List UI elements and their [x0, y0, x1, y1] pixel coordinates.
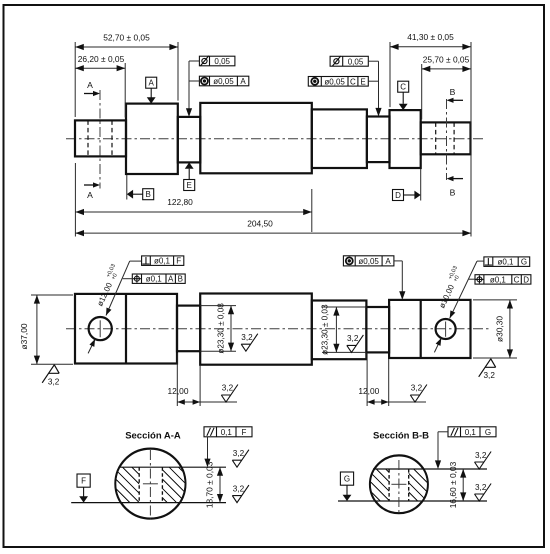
svg-text:D: D — [523, 275, 529, 284]
svg-text:ø0,05: ø0,05 — [358, 257, 379, 266]
svg-text:25,70 ± 0,05: 25,70 ± 0,05 — [423, 55, 470, 65]
svg-text:ø23,30 ± 0,03: ø23,30 ± 0,03 — [321, 304, 330, 355]
svg-text:0,05: 0,05 — [348, 57, 364, 66]
svg-text:F: F — [81, 477, 86, 486]
svg-text:ø0,1: ø0,1 — [490, 275, 507, 284]
svg-text:G: G — [485, 428, 491, 437]
svg-text:3,2: 3,2 — [347, 334, 359, 343]
svg-text:B: B — [178, 275, 183, 284]
svg-text:0,1: 0,1 — [221, 428, 233, 437]
svg-text:A: A — [385, 257, 391, 266]
svg-text:A: A — [87, 190, 93, 200]
svg-text:ø37,00: ø37,00 — [19, 323, 29, 349]
svg-text:E: E — [187, 181, 192, 190]
svg-text:C: C — [400, 83, 406, 92]
svg-text:Sección A-A: Sección A-A — [125, 431, 181, 442]
svg-text:12,00: 12,00 — [168, 386, 189, 396]
svg-text:3,2: 3,2 — [222, 384, 234, 393]
svg-text:G: G — [521, 258, 527, 267]
svg-text:Sección B-B: Sección B-B — [373, 431, 429, 442]
svg-text:A: A — [149, 79, 155, 88]
svg-text:3,2: 3,2 — [241, 333, 253, 342]
svg-text:0,05: 0,05 — [214, 57, 230, 66]
svg-text:C: C — [514, 275, 520, 284]
svg-text:A: A — [240, 77, 246, 86]
svg-text:3,2: 3,2 — [475, 483, 487, 492]
svg-text:ø0,1: ø0,1 — [154, 257, 171, 266]
svg-text:52,70 ± 0,05: 52,70 ± 0,05 — [103, 33, 150, 43]
svg-text:26,20 ± 0,05: 26,20 ± 0,05 — [78, 54, 125, 64]
svg-text:ø0,1: ø0,1 — [146, 275, 163, 284]
svg-text:ø0,05: ø0,05 — [213, 77, 234, 86]
svg-text:3,2: 3,2 — [233, 449, 245, 458]
svg-text:ø0,05: ø0,05 — [324, 77, 345, 86]
svg-text:12,00: 12,00 — [358, 386, 379, 396]
svg-text:122,80: 122,80 — [167, 197, 193, 207]
svg-text:E: E — [360, 77, 365, 86]
svg-text:ø0,1: ø0,1 — [497, 258, 514, 267]
svg-text:B: B — [450, 87, 456, 97]
svg-text:204,50: 204,50 — [247, 219, 273, 229]
svg-text:3,2: 3,2 — [48, 378, 60, 387]
svg-text:16,60 ± 0,03: 16,60 ± 0,03 — [448, 461, 458, 508]
svg-text:G: G — [344, 475, 350, 484]
svg-text:0,1: 0,1 — [465, 428, 477, 437]
svg-text:C: C — [350, 77, 356, 86]
svg-text:A: A — [168, 275, 174, 284]
svg-text:B: B — [450, 188, 456, 198]
svg-text:B: B — [146, 190, 151, 199]
svg-text:ø30,30: ø30,30 — [494, 316, 504, 342]
svg-text:3,2: 3,2 — [233, 484, 245, 493]
svg-text:ø23,30 ± 0,08: ø23,30 ± 0,08 — [217, 303, 226, 354]
svg-text:3,2: 3,2 — [475, 451, 487, 460]
svg-text:41,30 ± 0,05: 41,30 ± 0,05 — [407, 32, 454, 42]
svg-text:3,2: 3,2 — [484, 371, 496, 380]
svg-text:F: F — [242, 428, 247, 437]
svg-text:3,2: 3,2 — [411, 384, 423, 393]
svg-text:F: F — [176, 257, 181, 266]
svg-text:D: D — [395, 191, 401, 200]
svg-text:A: A — [87, 80, 93, 90]
svg-text:18,70 ± 0,03: 18,70 ± 0,03 — [205, 461, 215, 508]
